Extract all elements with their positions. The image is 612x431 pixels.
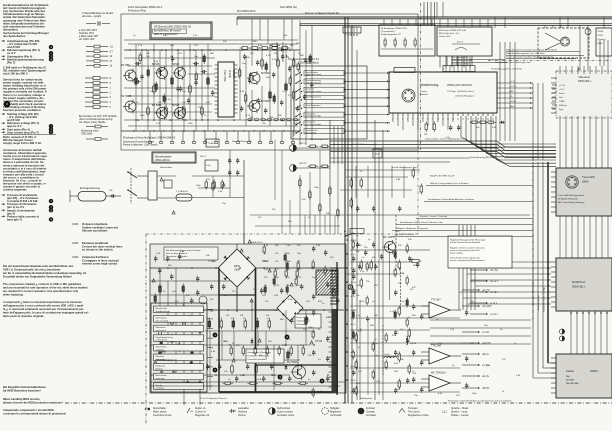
svg-text:misure sul primario dell'alime: misure sul primario dell'alimentazione bbox=[450, 259, 485, 262]
svg-text:Diagonale +B: Diagonale +B bbox=[195, 415, 209, 417]
svg-text:Kurzschluß sekundär: Kurzschluß sekundär bbox=[248, 358, 266, 361]
svg-text:27k: 27k bbox=[358, 331, 362, 333]
svg-text:33k: 33k bbox=[374, 315, 378, 317]
svg-text:3,3k: 3,3k bbox=[376, 381, 381, 383]
svg-text:BC548: BC548 bbox=[172, 105, 180, 107]
svg-text:33k: 33k bbox=[476, 127, 480, 129]
svg-text:when replacing.: when replacing. bbox=[2, 293, 24, 297]
svg-text:29504-268.01: 29504-268.01 bbox=[155, 159, 170, 162]
svg-text:tanto pezzi di ricambio origin: tanto pezzi di ricambio originali. bbox=[3, 314, 44, 318]
svg-text:Rückwand-Anschlußplatte 29504: Rückwand-Anschlußplatte 29504-268.02 bbox=[123, 136, 176, 140]
svg-text:control deviat.: control deviat. bbox=[156, 339, 169, 342]
svg-text:1k: 1k bbox=[243, 318, 245, 320]
svg-text:47k: 47k bbox=[255, 318, 258, 320]
svg-text:15k: 15k bbox=[356, 295, 360, 297]
svg-text:1µ: 1µ bbox=[452, 365, 455, 367]
svg-text:29504-250.0: 29504-250.0 bbox=[250, 242, 263, 244]
svg-text:BC 148 C: BC 148 C bbox=[383, 235, 395, 239]
svg-text:+L 12v: +L 12v bbox=[559, 85, 565, 87]
svg-text:+C 1v: +C 1v bbox=[350, 254, 355, 256]
svg-text:Bereitschaft: Bereitschaft bbox=[156, 307, 168, 310]
svg-text:680: 680 bbox=[246, 57, 250, 59]
svg-text:Für die Übertragung 1 kap 8: Für die Übertragung 1 kap 8 bbox=[392, 166, 419, 169]
svg-text:100n: 100n bbox=[314, 187, 320, 189]
svg-text:Abstimmbedienung 30 V (TSR-D: Abstimmbedienung 30 V (TSR-Diode positiv… bbox=[333, 143, 377, 146]
svg-text:Video-Recorder Ext | Zustand: Video-Recorder Ext | Zustand Zusatzgerät… bbox=[506, 49, 557, 52]
svg-text:always observe the MOS-protect: always observe the MOS-protection measur… bbox=[3, 400, 63, 404]
svg-text:Betriebsplatte: Betriebsplatte bbox=[155, 154, 172, 158]
svg-text:3,3k: 3,3k bbox=[218, 191, 223, 193]
svg-text:Prüf-Leit. an Masse (Chassis): Prüf-Leit. an Masse (Chassis) Ext bbox=[305, 12, 340, 15]
svg-text:BC548C: BC548C bbox=[261, 72, 271, 75]
svg-text:15k: 15k bbox=[158, 102, 162, 104]
svg-text:tol. ±20% 40V: tol. ±20% 40V bbox=[79, 38, 95, 41]
svg-text:base (pin 7): base (pin 7) bbox=[7, 217, 22, 221]
svg-text:P2 1x2 Prüfpunkt (Chassis): P2 1x2 Prüfpunkt (Chassis) bbox=[200, 397, 227, 400]
svg-text:(2 geregelten): (2 geregelten) bbox=[381, 30, 395, 33]
svg-text:Contrast: Contrast bbox=[366, 411, 375, 414]
svg-text:ZF-Modul 29504-228: ZF-Modul 29504-228 bbox=[558, 198, 578, 200]
svg-text:+L 11 v: +L 11 v bbox=[490, 313, 498, 316]
svg-text:1µ: 1µ bbox=[356, 235, 359, 237]
svg-text:5,6µH: 5,6µH bbox=[384, 354, 390, 356]
svg-text:+M 4v: +M 4v bbox=[350, 380, 356, 382]
svg-text:1µ: 1µ bbox=[374, 339, 377, 341]
svg-text:4,7µ: 4,7µ bbox=[356, 315, 361, 317]
svg-text:SECAM: SECAM bbox=[566, 378, 574, 381]
svg-text:Fernbedienter Oberoh Avdel: Fernbedienter Oberoh Avdel Abstimmk. aus… bbox=[428, 198, 475, 201]
svg-text:2,2k: 2,2k bbox=[156, 123, 161, 125]
svg-text:Standby detector: Standby detector bbox=[156, 310, 171, 313]
svg-text:4,7: 4,7 bbox=[110, 50, 114, 53]
svg-text:den vor dem Abgleich: den vor dem Abgleich bbox=[166, 252, 188, 255]
svg-text:5: 5 bbox=[110, 82, 112, 85]
svg-text:TV AU: TV AU bbox=[208, 142, 215, 145]
svg-text:1A T2,5: 1A T2,5 bbox=[299, 162, 307, 165]
svg-text:29504: 29504 bbox=[582, 181, 589, 184]
svg-text:27k: 27k bbox=[502, 359, 506, 361]
svg-text:Negative reference point for m: Negative reference point for measure- bbox=[450, 246, 485, 249]
svg-text:Colour contrast: Colour contrast bbox=[277, 411, 293, 414]
svg-text:0,1µ: 0,1µ bbox=[206, 165, 211, 167]
svg-text:Sprache – Musik: Sprache – Musik bbox=[451, 407, 469, 410]
svg-text:take over point: take over point bbox=[156, 320, 169, 323]
svg-text:1µ: 1µ bbox=[358, 347, 361, 349]
svg-text:10µ: 10µ bbox=[182, 91, 186, 93]
svg-text:Abstimmung: Abstimmung bbox=[420, 83, 438, 87]
svg-text:Lautstärke: Lautstärke bbox=[238, 407, 250, 410]
svg-text:Volume: Volume bbox=[238, 415, 246, 417]
svg-text:4,7µ: 4,7µ bbox=[300, 345, 305, 347]
svg-text:as shown in the sketch.: as shown in the sketch. bbox=[82, 248, 114, 252]
svg-text:10µ: 10µ bbox=[414, 395, 418, 397]
svg-text:+L 1v: +L 1v bbox=[350, 366, 355, 368]
svg-text:Ω: Ω bbox=[110, 77, 112, 80]
svg-text:schaltung: schaltung bbox=[156, 348, 164, 351]
svg-text:AFC: AFC bbox=[510, 90, 515, 93]
svg-text:2n2: 2n2 bbox=[250, 53, 254, 55]
svg-text:(Pin 7): (Pin 7) bbox=[7, 60, 15, 64]
svg-text:1n: 1n bbox=[362, 257, 365, 259]
svg-text:Contrasto: Contrasto bbox=[366, 414, 377, 417]
svg-text:Stop current drop (Pin 7): Stop current drop (Pin 7) bbox=[7, 130, 39, 134]
svg-text:Fern-Geräte Ext: Fern-Geräte Ext bbox=[452, 56, 468, 59]
svg-text:CVBS: CVBS bbox=[559, 101, 565, 103]
svg-text:+C 5v: +C 5v bbox=[559, 89, 564, 91]
svg-text:33k: 33k bbox=[278, 115, 282, 117]
svg-text:Trenntrafo verwenden: Trenntrafo verwenden bbox=[166, 255, 188, 258]
svg-text:Datenschalter - Daten-/Taktlei: Datenschalter - Daten-/Taktleitungen 4-f… bbox=[425, 138, 468, 141]
svg-text:47k: 47k bbox=[302, 199, 306, 201]
svg-text:Übernahme: Übernahme bbox=[156, 317, 168, 320]
svg-text:47k: 47k bbox=[410, 289, 414, 291]
svg-text:IRD-Prüfer 29504-(211.1) A: IRD-Prüfer 29504-(211.1) A bbox=[439, 29, 466, 32]
svg-text:220: 220 bbox=[178, 53, 182, 55]
svg-text:29504-/003.04/02/03: 29504-/003.04/02/03 bbox=[447, 83, 472, 87]
svg-text:| 003.10 (Hauptger.): | 003.10 (Hauptger.) bbox=[455, 95, 475, 98]
svg-text:BC 548B: BC 548B bbox=[121, 94, 132, 98]
svg-text:20: 20 bbox=[487, 119, 489, 121]
svg-text:100n: 100n bbox=[375, 154, 379, 156]
svg-text:~ 27,2 V: ~ 27,2 V bbox=[455, 42, 464, 44]
svg-text:100n: 100n bbox=[196, 185, 202, 187]
svg-text:Netzschalter: Netzschalter bbox=[153, 407, 166, 410]
svg-text:100n: 100n bbox=[472, 393, 478, 395]
svg-text:100n: 100n bbox=[140, 115, 146, 117]
svg-text:The components marked △ conf: The components marked △ conform to VDE o… bbox=[3, 282, 82, 286]
svg-text:steuerung: steuerung bbox=[156, 377, 165, 380]
svg-text:AFC Umschaltung Sättigung: AFC Umschaltung Sättigung bbox=[558, 201, 585, 204]
svg-text:+F 1v: +F 1v bbox=[350, 296, 355, 298]
svg-text:schema seguente:: schema seguente: bbox=[3, 188, 27, 192]
svg-text:MAB: MAB bbox=[598, 42, 603, 45]
svg-text:14: 14 bbox=[457, 119, 459, 121]
svg-text:1µ: 1µ bbox=[368, 239, 371, 241]
svg-text:8,2k: 8,2k bbox=[360, 301, 365, 303]
svg-text:UHF-tw (Tuning voltage) Tens: UHF-tw (Tuning voltage) Tens. di Sintoni… bbox=[430, 182, 469, 185]
svg-text:and are essential for safe ope: and are essential for safe operation of … bbox=[3, 286, 88, 290]
svg-text:Regler +A: Regler +A bbox=[195, 407, 206, 410]
svg-text:Start/Stop Suche: Start/Stop Suche bbox=[306, 96, 322, 99]
svg-text:Interruttore di rete: Interruttore di rete bbox=[153, 414, 172, 417]
svg-text:für MOS-Bausteine beachten!: für MOS-Bausteine beachten! bbox=[3, 388, 41, 392]
svg-text:4,7µ: 4,7µ bbox=[166, 99, 171, 101]
svg-text:Volumes: Volumes bbox=[238, 412, 248, 414]
svg-text:6,8k: 6,8k bbox=[396, 179, 401, 181]
svg-text:Prüf 29504-043.5: Prüf 29504-043.5 bbox=[237, 10, 256, 13]
svg-text:überprüfen.: überprüfen. bbox=[3, 27, 19, 31]
svg-text:1µ: 1µ bbox=[133, 35, 136, 37]
svg-text:Netz 29504 (2x): Netz 29504 (2x) bbox=[280, 6, 297, 9]
svg-text:220: 220 bbox=[374, 285, 378, 287]
svg-text:Ersatzfall dürfen nur Original: Ersatzfall dürfen nur Originalteile Verw… bbox=[3, 275, 72, 279]
svg-text:tà △ si necessita solamente: tà △ si necessita solamente necessari pe… bbox=[3, 307, 84, 311]
svg-text:4,7µ: 4,7µ bbox=[438, 343, 443, 345]
svg-text:33k: 33k bbox=[470, 301, 474, 303]
svg-text:27k: 27k bbox=[424, 134, 428, 136]
svg-text:15k: 15k bbox=[358, 245, 362, 247]
svg-text:TTV 067: TTV 067 bbox=[431, 299, 441, 302]
svg-text:Free Speicher folge: Free Speicher folge bbox=[306, 116, 322, 118]
svg-text:220: 220 bbox=[223, 41, 227, 43]
svg-text:(2bb. TV-Funktion): (2bb. TV-Funktion) bbox=[300, 62, 319, 65]
svg-text:21: 21 bbox=[492, 119, 494, 121]
svg-text:1k: 1k bbox=[360, 171, 363, 173]
svg-text:C/L-Werte siehe Tabelle: C/L-Werte siehe Tabelle bbox=[79, 121, 106, 124]
svg-text:1k: 1k bbox=[502, 391, 505, 393]
svg-text:100n: 100n bbox=[286, 261, 292, 263]
svg-text:3,3k: 3,3k bbox=[154, 61, 159, 63]
svg-text:Austastung RGB: Austastung RGB bbox=[537, 294, 540, 310]
svg-text:ten für d. einwandfreie Betr: ten für d. einwandfreie Betriebsfunktion… bbox=[3, 271, 87, 275]
svg-text:1k: 1k bbox=[308, 217, 311, 219]
svg-text:15k: 15k bbox=[366, 281, 370, 283]
svg-text:TDA 7056: TDA 7056 bbox=[223, 70, 227, 82]
svg-text:Punto di riferimento negativo: Punto di riferimento negativo per bbox=[450, 257, 480, 260]
svg-text:Kontrast - Control - Contrasto: Kontrast - Control - Contrasto bbox=[420, 215, 448, 218]
svg-text:Schutz-: Schutz- bbox=[156, 384, 164, 387]
svg-text:supply range 100 to 380 V AC.: supply range 100 to 380 V AC. bbox=[3, 141, 42, 145]
svg-text:Seitenzüge vorbehalten/Subject: Seitenzüge vorbehalten/Subject to altera… bbox=[448, 400, 512, 403]
svg-text:4,7k: 4,7k bbox=[400, 273, 405, 275]
svg-text:Regelabweichung: Regelabweichung bbox=[156, 337, 174, 339]
svg-text:+I 11v: +I 11v bbox=[350, 338, 355, 340]
svg-text:Piastra di allacciam. (Cybl.: Piastra di allacciam. (Cybl. board) bbox=[123, 144, 158, 147]
svg-text:+B(1)Hz: +B(1)Hz bbox=[482, 342, 492, 345]
svg-text:560: 560 bbox=[372, 257, 376, 259]
svg-text:1k: 1k bbox=[204, 115, 207, 117]
svg-text:Self System Tuning: Self System Tuning bbox=[306, 90, 321, 93]
svg-text:Bild-ZF | 38,9 MHz Ton-ZF: Bild-ZF | 38,9 MHz Ton-ZF bbox=[430, 176, 455, 178]
svg-text:15k: 15k bbox=[262, 123, 266, 125]
svg-text:Original-Bauteil: Original-Bauteil bbox=[297, 320, 311, 323]
svg-text:1A T2,5: 1A T2,5 bbox=[299, 142, 307, 145]
svg-text:2n2: 2n2 bbox=[396, 231, 400, 233]
svg-text:esterne come negli schizzi: esterne come negli schizzi bbox=[82, 262, 118, 266]
svg-text:680: 680 bbox=[253, 41, 257, 43]
svg-text:osservare le corrispondenti mi: osservare le corrispondenti misure di pr… bbox=[3, 411, 66, 415]
svg-text:4,7k: 4,7k bbox=[138, 45, 143, 47]
svg-text:22k: 22k bbox=[272, 209, 276, 211]
svg-text:Startstrom: Startstrom bbox=[156, 326, 166, 329]
svg-text:T 2,5A 5x20: T 2,5A 5x20 bbox=[176, 190, 188, 193]
svg-text:27k: 27k bbox=[258, 217, 262, 219]
svg-text:+E (7)v: +E (7)v bbox=[482, 289, 491, 292]
svg-text:RGB out: RGB out bbox=[559, 104, 567, 107]
svg-text:+B (cv: +B (cv bbox=[482, 353, 490, 356]
svg-text:100n: 100n bbox=[188, 123, 194, 125]
svg-text:Bedienplatte: Bedienplatte bbox=[360, 397, 373, 400]
svg-text:3: 3 bbox=[110, 96, 112, 99]
svg-text:4,7µ: 4,7µ bbox=[360, 271, 365, 273]
svg-text:2,2k: 2,2k bbox=[412, 373, 417, 375]
svg-text:schaltung: schaltung bbox=[156, 387, 164, 390]
svg-text:Helligkeit: Helligkeit bbox=[330, 407, 340, 410]
svg-text:4,7k: 4,7k bbox=[266, 55, 271, 57]
svg-text:10µ: 10µ bbox=[222, 203, 226, 205]
svg-text:29502-1: 29502-1 bbox=[232, 70, 234, 79]
svg-text:22k: 22k bbox=[398, 245, 402, 247]
svg-text:22k: 22k bbox=[364, 247, 368, 249]
svg-text:ments on the primary side of t: ments on the primary side of the bbox=[450, 249, 481, 252]
svg-text:Fernbedienung (IR) Empf.: Fernbedienung (IR) Empf. bbox=[470, 156, 496, 159]
svg-text:IRD Prüfer (Pos. 2x): IRD Prüfer (Pos. 2x) bbox=[439, 32, 459, 35]
svg-text:Kontrast: Kontrast bbox=[366, 407, 375, 410]
svg-text:power supply.: power supply. bbox=[450, 252, 463, 255]
svg-text:+E 12 v: +E 12 v bbox=[490, 280, 499, 283]
svg-text:2n2: 2n2 bbox=[358, 371, 362, 373]
svg-text:◻◻: ◻◻ bbox=[442, 410, 447, 414]
svg-text:8,2k: 8,2k bbox=[438, 393, 443, 395]
svg-text:100n: 100n bbox=[308, 327, 314, 329]
svg-text:1k: 1k bbox=[110, 65, 113, 68]
svg-text:5: 5 bbox=[110, 106, 112, 109]
svg-text:Skizzen ausrichten.: Skizzen ausrichten. bbox=[82, 229, 108, 233]
svg-text:3,3k: 3,3k bbox=[516, 375, 521, 377]
svg-text:+E (1v: +E (1v bbox=[482, 375, 490, 378]
svg-text:10µ: 10µ bbox=[374, 343, 378, 345]
svg-text:Sicherheits-: Sicherheits- bbox=[156, 345, 168, 348]
svg-text:BC548C: BC548C bbox=[261, 100, 271, 103]
svg-text:4,7µ: 4,7µ bbox=[374, 355, 379, 357]
svg-text:4: 4 bbox=[110, 101, 112, 104]
svg-text:1µ: 1µ bbox=[500, 329, 503, 331]
svg-text:I componenti △ fanno la mass: I componenti △ fanno la massima importan… bbox=[3, 300, 82, 304]
svg-text:fetto dell'apparecchio. In cas: fetto dell'apparecchio. In caso di sosti… bbox=[3, 311, 89, 315]
svg-text:3,3k: 3,3k bbox=[170, 45, 175, 47]
svg-text:22k: 22k bbox=[194, 45, 198, 47]
svg-text:Datenschalter - Cate-/Taktleit: Datenschalter - Cate-/Taktleitungen und bbox=[495, 61, 530, 64]
svg-text:NF(Zweck) BW 29502-406.02: NF(Zweck) BW 29502-406.02 bbox=[154, 25, 191, 29]
svg-text:Memory Stop: Memory Stop bbox=[306, 131, 317, 134]
svg-text:2,2k: 2,2k bbox=[193, 35, 198, 37]
svg-text:2,2k: 2,2k bbox=[450, 329, 455, 331]
svg-text:RGB/Text: RGB/Text bbox=[572, 280, 585, 284]
svg-text:auf der Primärseite des Netzte: auf der Primärseite des Netzteils. bbox=[450, 241, 481, 244]
svg-text:Nullpunkt-: Nullpunkt- bbox=[156, 365, 166, 368]
svg-text:15: 15 bbox=[462, 119, 464, 121]
svg-text:reich 100 bis 380 V.: reich 100 bis 380 V. bbox=[3, 72, 28, 76]
svg-text:Entmagnetisierung: Entmagnetisierung bbox=[80, 187, 101, 190]
svg-text:22k: 22k bbox=[398, 283, 402, 285]
svg-text:8,2k: 8,2k bbox=[394, 363, 399, 365]
svg-text:CWA: CWA bbox=[72, 241, 79, 245]
svg-text:1: 1 bbox=[110, 87, 112, 90]
svg-text:1n: 1n bbox=[282, 91, 285, 93]
svg-text:10µ: 10µ bbox=[194, 56, 198, 58]
svg-text:560: 560 bbox=[394, 371, 398, 373]
svg-text:(3-fach): (3-fach) bbox=[228, 70, 230, 78]
svg-text:Zweite LED: Zweite LED bbox=[439, 35, 451, 38]
svg-text:Tonregler: Tonregler bbox=[408, 407, 418, 410]
svg-text:Sintonia: Sintonia bbox=[420, 93, 429, 96]
svg-text:Brightness: Brightness bbox=[330, 411, 342, 414]
svg-text:C800: C800 bbox=[234, 268, 240, 271]
svg-text:Takt: Takt bbox=[559, 96, 563, 99]
svg-text:Netzschalter: Netzschalter bbox=[160, 166, 172, 169]
svg-text:+F 12 v: +F 12 v bbox=[490, 291, 499, 294]
svg-text:Such-Programm: Such-Programm bbox=[306, 104, 321, 107]
svg-text:4,7µ: 4,7µ bbox=[400, 301, 405, 303]
svg-text:Basisstrom-: Basisstrom- bbox=[156, 374, 168, 377]
svg-text:TDA 4620/4Q10 IC: TDA 4620/4Q10 IC bbox=[156, 359, 177, 362]
svg-text:Helligkeit - Brightness - Lumi: Helligkeit - Brightness - Luminosità bbox=[396, 227, 429, 230]
svg-text:PAL/SECAM: PAL/SECAM bbox=[566, 382, 579, 385]
svg-text:are required for correct opera: are required for correct operation. Use … bbox=[3, 289, 79, 293]
svg-text:18: 18 bbox=[477, 119, 479, 121]
svg-text:Farbkontrast: Farbkontrast bbox=[277, 407, 290, 410]
svg-text:220: 220 bbox=[206, 179, 210, 181]
svg-text:TV-Progr. | 003.04 (4 Gerä.): TV-Progr. | 003.04 (4 Gerä.) bbox=[447, 90, 474, 93]
svg-text:29504-380.1: 29504-380.1 bbox=[578, 81, 592, 83]
svg-text:250 V~: 250 V~ bbox=[200, 156, 208, 158]
svg-text:teil-Liste - upright: teil-Liste - upright bbox=[82, 15, 101, 18]
svg-text:+D (7)v: +D (7)v bbox=[490, 269, 499, 272]
svg-text:Tuning: Tuning bbox=[420, 91, 427, 93]
svg-text:Überlast-: Überlast- bbox=[156, 355, 165, 358]
svg-text:19: 19 bbox=[482, 119, 484, 121]
svg-text:043 B: 043 B bbox=[598, 35, 604, 37]
svg-text:(Zweitg.): (Zweitg.) bbox=[598, 38, 606, 41]
svg-text:120: 120 bbox=[182, 102, 186, 104]
svg-text:Luminosità: Luminosità bbox=[330, 414, 342, 417]
svg-text:680: 680 bbox=[370, 325, 374, 327]
svg-text:IR-Empfänger 29504-225.1: IR-Empfänger 29504-225.1 bbox=[381, 27, 408, 30]
svg-text:Ny Ster Cheft-Treib: Ny Ster Cheft-Treib bbox=[396, 233, 415, 236]
svg-text:Empfangsplatten TP: Empfangsplatten TP bbox=[381, 33, 401, 36]
svg-text:VDE f.d. Geräteschutz: VDE f.d. Geräteschutzkl. die mit △ bezei… bbox=[3, 268, 61, 272]
svg-text:Video-Recorder angeschl. | (a: Video-Recorder angeschl. | (an. unter de… bbox=[506, 52, 545, 55]
svg-text:29504-: 29504- bbox=[590, 369, 598, 373]
svg-text:+C 12v: +C 12v bbox=[510, 86, 516, 88]
svg-text:Mono TV/Stereo TV/: Mono TV/Stereo TV/ bbox=[232, 140, 252, 143]
svg-text:Lokal-Farbe Umsch.: Lokal-Farbe Umsch. bbox=[306, 74, 323, 76]
svg-text:15k: 15k bbox=[146, 56, 150, 58]
svg-text:BC548: BC548 bbox=[152, 64, 160, 66]
svg-text:TR 65: TR 65 bbox=[315, 339, 323, 343]
svg-text:Free Speicher folge: Free Speicher folge bbox=[306, 124, 322, 126]
svg-text:27k: 27k bbox=[288, 95, 292, 97]
svg-text:470: 470 bbox=[206, 102, 210, 104]
svg-text:BC 558: BC 558 bbox=[121, 63, 130, 67]
svg-text:Tint control: Tint control bbox=[408, 411, 420, 414]
svg-text:Keyboard 29504-357.11: Keyboard 29504-357.11 bbox=[288, 57, 319, 61]
svg-text:Speech – music: Speech – music bbox=[451, 412, 468, 414]
svg-text:Mains switch: Mains switch bbox=[153, 411, 167, 414]
svg-text:Daten: Daten bbox=[559, 92, 564, 95]
svg-text:120: 120 bbox=[456, 395, 460, 397]
svg-text:Fernbedienung (30 V) - Club-E: Fernbedienung (30 V) - Club-Empf. bbox=[491, 69, 523, 71]
svg-text:Tuner UHF/VHF Hyperband: Tuner UHF/VHF Hyperband bbox=[558, 194, 585, 197]
svg-text:+L 7v: +L 7v bbox=[510, 81, 515, 83]
svg-text:des Spannbuttes:: des Spannbuttes: bbox=[3, 34, 26, 38]
svg-text:+B 30v: +B 30v bbox=[510, 101, 516, 103]
svg-text:CWA: CWA bbox=[72, 255, 79, 259]
svg-text:15k: 15k bbox=[408, 239, 412, 241]
svg-text:33k: 33k bbox=[400, 359, 404, 361]
svg-text:47: 47 bbox=[110, 60, 113, 63]
svg-text:Prüfschnur (Pos): Prüfschnur (Pos) bbox=[128, 9, 146, 12]
svg-text:KL: KL bbox=[344, 231, 347, 233]
svg-text:Videotext: Videotext bbox=[578, 75, 590, 79]
svg-text:10µ: 10µ bbox=[484, 325, 488, 327]
svg-text:Control +A: Control +A bbox=[195, 411, 207, 414]
svg-text:Regolazione di tinta: Regolazione di tinta bbox=[408, 414, 429, 417]
svg-text:16: 16 bbox=[467, 119, 469, 121]
svg-text:function prevents oscillation:: function prevents oscillation: bbox=[3, 108, 41, 112]
svg-text:17: 17 bbox=[472, 119, 474, 121]
svg-text:BU 508A: BU 508A bbox=[287, 360, 298, 364]
